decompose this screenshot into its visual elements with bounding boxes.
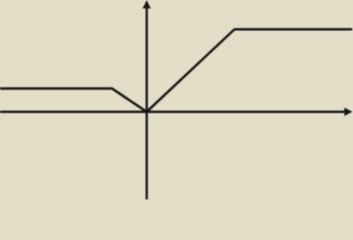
x-axis	[0, 111, 346, 113]
x-axis arrowhead	[344, 108, 352, 116]
y-axis arrowhead	[143, 0, 151, 8]
y-axis	[146, 7, 148, 200]
curve: piecewise-linear function	[0, 29, 352, 112]
